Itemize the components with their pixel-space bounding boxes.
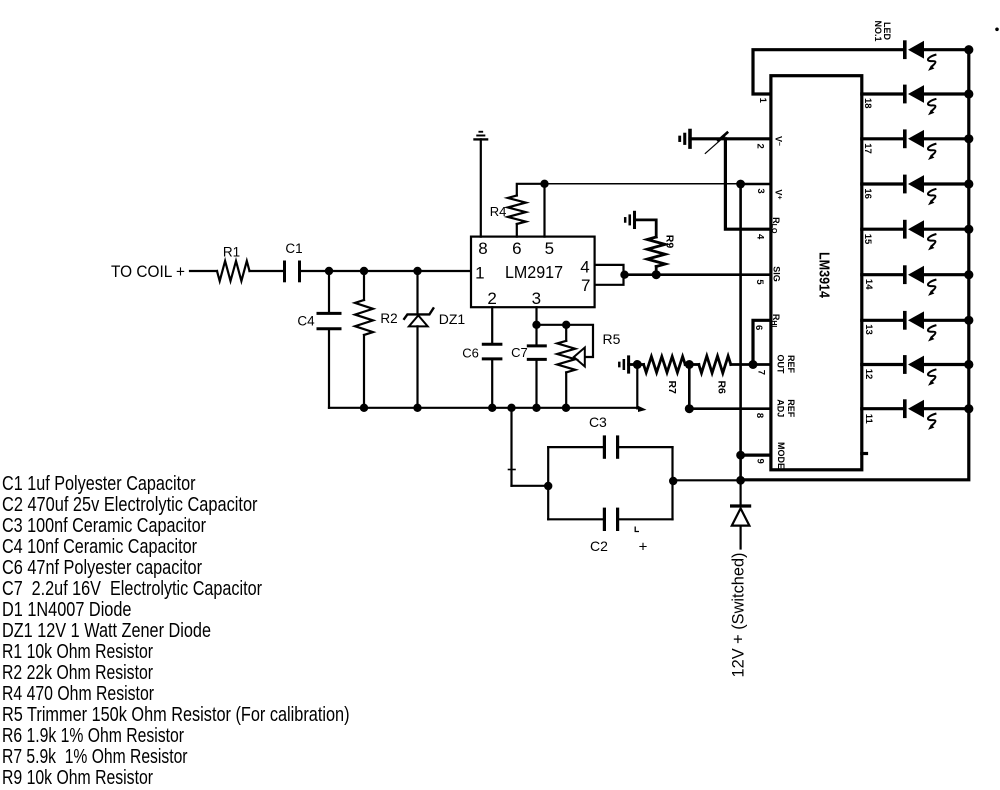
junction: [964, 134, 973, 143]
svg-text:18: 18: [862, 98, 873, 109]
junction: [633, 360, 642, 369]
LED at pin 16: [905, 175, 969, 206]
svg-text:NO.1: NO.1: [873, 20, 883, 41]
svg-text:D1 1N4007 Diode: D1 1N4007 Diode: [2, 598, 132, 621]
svg-text:7: 7: [756, 370, 767, 375]
svg-text:1: 1: [757, 98, 768, 104]
wire: [862, 228, 905, 231]
junction: [413, 404, 421, 412]
op-amp U1 LM2917 body: [471, 237, 595, 308]
svg-text:R2: R2: [380, 311, 397, 326]
capacitor C6: [491, 307, 493, 344]
svg-text:15: 15: [862, 234, 873, 245]
svg-text:6: 6: [753, 325, 764, 330]
svg-text:R1: R1: [223, 245, 240, 260]
svg-text:8: 8: [754, 413, 765, 418]
capacitor C7: [535, 307, 537, 325]
svg-text:R7: R7: [666, 380, 678, 394]
junction: [685, 404, 694, 413]
svg-text:5: 5: [545, 239, 554, 258]
svg-text:R7 5.9k 1% Ohm Resistor: R7 5.9k 1% Ohm Resistor: [2, 745, 188, 768]
svg-text:TO COIL +: TO COIL +: [111, 262, 185, 281]
svg-text:C2 470uf 25v Electrolytic Capa: C2 470uf 25v Electrolytic Capacitor: [2, 493, 258, 516]
junction: [532, 321, 540, 329]
svg-text:R5 Trimmer 150k Ohm Resistor (: R5 Trimmer 150k Ohm Resistor (For calibr…: [2, 703, 350, 726]
junction: [964, 404, 973, 413]
svg-text:5: 5: [754, 279, 765, 285]
svg-text:12V + (Switched): 12V + (Switched): [729, 553, 748, 678]
junction: [360, 267, 368, 275]
wire: [862, 407, 905, 410]
wire pin 10 stub: [862, 452, 867, 455]
LED at pin 18: [905, 85, 969, 116]
junction: [325, 267, 333, 275]
svg-text:R6 1.9k 1% Ohm Resistor: R6 1.9k 1% Ohm Resistor: [2, 724, 184, 747]
wire end arrowhead artifact: [638, 406, 647, 412]
wire: [862, 92, 905, 95]
LED no.1: [905, 40, 969, 71]
wire: [862, 137, 905, 140]
svg-text:MODE: MODE: [776, 442, 786, 469]
svg-text:R9 10k Ohm Resistor: R9 10k Ohm Resistor: [2, 766, 153, 789]
svg-text:6: 6: [512, 239, 521, 258]
svg-text:R1 10k Ohm Resistor: R1 10k Ohm Resistor: [2, 640, 153, 663]
svg-text:7: 7: [581, 276, 590, 295]
LED at pin 11: [905, 399, 969, 430]
wire RHI to REF OUT connector: [753, 320, 771, 364]
junction: [652, 270, 661, 279]
mark artifact near C2: [635, 527, 639, 532]
svg-text:C4 10nf Ceramic Capacitor: C4 10nf Ceramic Capacitor: [2, 535, 197, 558]
ground: [473, 132, 488, 140]
LED at pin 14: [905, 265, 969, 296]
junction: [360, 404, 368, 412]
svg-text:C4: C4: [297, 314, 315, 329]
svg-text:C2: C2: [590, 538, 608, 554]
svg-text:17: 17: [862, 143, 873, 154]
svg-text:C3: C3: [589, 414, 607, 430]
wire pin 8 REF ADJ net: [689, 407, 771, 410]
junction: [964, 316, 973, 325]
LED at pin 13: [905, 311, 969, 342]
wire: [862, 363, 905, 366]
junction: [488, 404, 496, 412]
svg-text:9: 9: [755, 459, 766, 464]
svg-text:16: 16: [862, 188, 873, 199]
svg-text:14: 14: [863, 279, 874, 290]
svg-text:C7 2.2uf 16V Electrolytic Ca: C7 2.2uf 16V Electrolytic Capacitor: [2, 577, 262, 600]
svg-text:C3 100nf Ceramic Capacitor: C3 100nf Ceramic Capacitor: [2, 514, 206, 537]
wire SIG net: [625, 273, 771, 276]
wire pin 9: [741, 454, 771, 457]
junction: [736, 476, 745, 485]
svg-text:LM2917: LM2917: [505, 262, 563, 282]
svg-text:1: 1: [475, 264, 484, 283]
junction: [964, 360, 973, 369]
zener diode DZ1: [416, 271, 418, 314]
svg-text:13: 13: [863, 324, 874, 335]
ground: [625, 211, 634, 229]
svg-text:ADJ: ADJ: [775, 399, 785, 417]
svg-text:4: 4: [580, 257, 589, 276]
wire pin 1 loop: [753, 50, 905, 94]
wire V+ to MODE: [739, 184, 742, 480]
svg-text:DZ1: DZ1: [439, 311, 466, 327]
junction: [413, 267, 421, 275]
svg-text:R6: R6: [715, 380, 727, 394]
junction: [507, 404, 515, 412]
junction: [964, 45, 973, 54]
junction: [562, 321, 570, 329]
wire 12V feed: [673, 479, 740, 481]
junction: [964, 89, 973, 98]
wire: [629, 363, 638, 366]
wire pin 3: [741, 183, 771, 186]
svg-text:12: 12: [863, 369, 874, 380]
svg-text:R4 470 Ohm Resistor: R4 470 Ohm Resistor: [2, 682, 154, 705]
wire: [300, 270, 471, 272]
svg-text:4: 4: [755, 234, 766, 240]
svg-text:REF: REF: [786, 355, 796, 374]
stray dot artifact: [995, 28, 999, 32]
LED at pin 17: [905, 129, 969, 160]
resistor R7: [637, 363, 643, 366]
wire: [862, 273, 905, 276]
wire: [636, 365, 638, 409]
svg-text:R4: R4: [490, 204, 507, 219]
svg-text:REF: REF: [786, 399, 796, 418]
wire pin 8 to ground: [480, 139, 482, 236]
junction: [964, 225, 973, 234]
wire: [250, 270, 285, 272]
svg-text:OUT: OUT: [775, 355, 785, 375]
junction: [736, 180, 745, 189]
diode D1: [739, 480, 741, 506]
svg-text:R9: R9: [664, 235, 676, 249]
wire pin 2 to ground: [690, 137, 771, 140]
wire slash artifact: [705, 136, 725, 153]
wire ground bus: [329, 407, 637, 409]
wire jog artifact: [718, 133, 727, 141]
svg-text:11: 11: [863, 414, 874, 425]
svg-text:C6 47nf Polyester capacitor: C6 47nf Polyester capacitor: [2, 556, 202, 579]
wire: [862, 319, 905, 322]
capacitor C2 (bottom of loop): [548, 518, 672, 520]
svg-text:R2 22k Ohm Resistor: R2 22k Ohm Resistor: [2, 661, 153, 684]
svg-text:LM3914: LM3914: [815, 252, 832, 299]
junction: [964, 270, 973, 279]
svg-text:C6: C6: [462, 345, 479, 360]
wire loop left side: [547, 447, 549, 519]
svg-text:C1: C1: [285, 241, 302, 256]
svg-text:R5: R5: [603, 331, 621, 347]
junction: [562, 404, 570, 412]
junction: [685, 360, 694, 369]
junction: [749, 360, 758, 369]
svg-text:C7: C7: [511, 345, 528, 360]
ground: [680, 129, 690, 149]
svg-text:3: 3: [532, 289, 541, 308]
junction: [544, 482, 552, 490]
IC U2 LM3914 body: [771, 76, 862, 470]
junction: [620, 271, 628, 279]
capacitor C1: [283, 262, 286, 281]
resistor R1: [217, 261, 250, 281]
wire: [862, 182, 905, 185]
junction: [964, 179, 973, 188]
wire pin 5: [543, 184, 545, 237]
junction: [669, 477, 677, 485]
trimmer resistor R5: [537, 325, 594, 357]
svg-text:3: 3: [755, 188, 766, 193]
svg-text:DZ1 12V 1 Watt Zener Diode: DZ1 12V 1 Watt Zener Diode: [2, 619, 211, 642]
wire loop right side: [671, 447, 673, 519]
LED at pin 15: [905, 220, 969, 251]
resistor R4: [516, 224, 518, 237]
wire LED rail: [741, 50, 969, 480]
resistor R2: [363, 271, 365, 300]
capacitor C4: [328, 271, 330, 313]
resistor R6: [699, 356, 731, 373]
svg-text:+: +: [639, 539, 648, 556]
wire: [190, 270, 217, 272]
junction: [532, 404, 540, 412]
ground: [619, 355, 628, 373]
svg-text:SIG: SIG: [771, 266, 781, 282]
wire down to C2-C3 loop: [510, 408, 512, 486]
wire pins 4-7 bracket: [595, 265, 624, 285]
wire V+ net (thin): [545, 183, 741, 185]
junction: [540, 180, 548, 188]
svg-text:8: 8: [478, 239, 487, 258]
capacitor C3 (top of loop): [548, 446, 672, 448]
resistor R9: [655, 267, 658, 275]
LED at pin 12: [905, 355, 969, 386]
svg-text:2: 2: [487, 289, 496, 308]
junction: [736, 451, 745, 460]
wire: [688, 365, 691, 409]
svg-text:2: 2: [755, 144, 766, 149]
svg-text:C1 1uf Polyester Capacitor: C1 1uf Polyester Capacitor: [2, 472, 196, 495]
wire V- to RLO connector: [725, 139, 771, 229]
